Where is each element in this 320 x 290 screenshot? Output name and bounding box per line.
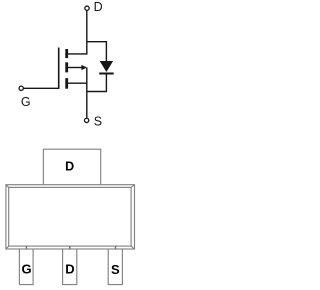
- svg-text:D: D: [94, 0, 103, 14]
- svg-text:G: G: [21, 262, 31, 277]
- svg-text:G: G: [21, 95, 31, 109]
- svg-text:D: D: [65, 262, 74, 277]
- svg-text:D: D: [65, 159, 74, 173]
- svg-text:S: S: [94, 114, 102, 128]
- svg-text:S: S: [111, 262, 120, 277]
